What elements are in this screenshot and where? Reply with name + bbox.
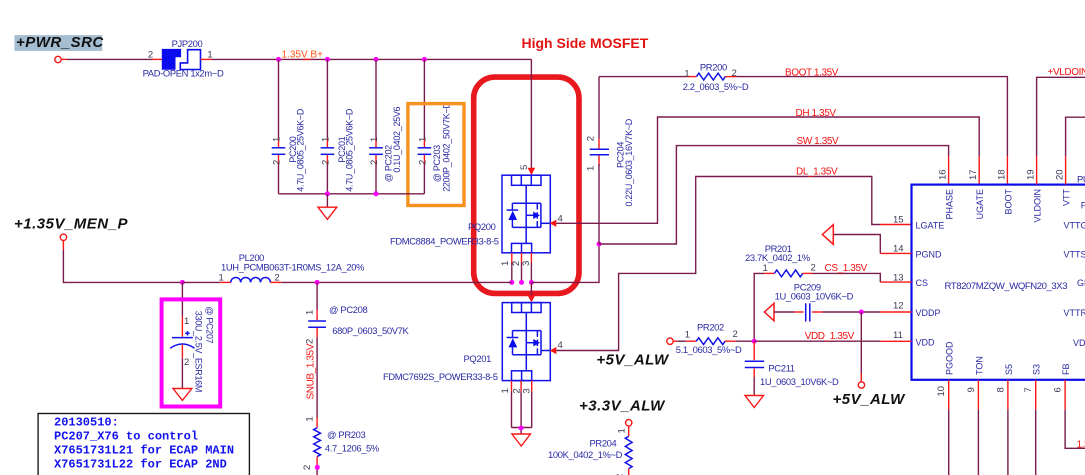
capacitor PC201 (320, 59, 354, 193)
svg-text:2: 2 (272, 160, 283, 165)
pin 20 VTT (1055, 117, 1085, 206)
svg-text:VDD_1.35V: VDD_1.35V (805, 331, 855, 342)
svg-text:S3: S3 (1032, 364, 1042, 375)
transistor PQ200 (390, 165, 563, 266)
svg-text:@ PC207: @ PC207 (205, 306, 215, 343)
svg-text:19: 19 (1026, 169, 1037, 180)
pin 6 FB (1053, 363, 1085, 448)
wire PL200 to SW node (270, 281, 511, 283)
junction dot +5V/VDDP (859, 310, 864, 315)
highlight box around PC203 (orange) (408, 104, 464, 206)
svg-text:2.2_0603_5%~D: 2.2_0603_5%~D (683, 81, 749, 92)
junction dots on 1.35V rail (276, 57, 427, 62)
svg-text:PR202: PR202 (697, 322, 724, 333)
junction dots on cap bottom rail (325, 191, 379, 196)
capacitor PC209 with page arrow (764, 281, 880, 321)
wires PQ201 pins 1,2,3 to ground (512, 381, 532, 434)
svg-text:18: 18 (996, 169, 1007, 180)
svg-text:16: 16 (938, 169, 949, 180)
pin 19 VLDOIN (1026, 77, 1085, 222)
pin 16 PHASE (938, 169, 955, 219)
resistor PR201 (745, 243, 912, 341)
svg-text:PU200: PU200 (1077, 174, 1085, 185)
pin 9 TON (966, 356, 985, 475)
svg-text:VTT: VTT (1062, 188, 1072, 206)
pin 18 BOOT (996, 169, 1013, 214)
note box 20130510 (38, 414, 249, 475)
PQ200 pin4 arrow (550, 220, 557, 227)
pin 15 LGATE (893, 215, 944, 231)
svg-text:VDDP: VDDP (916, 308, 941, 318)
resistor PR203 (302, 416, 379, 475)
svg-text:1: 1 (417, 137, 428, 142)
svg-text:2: 2 (417, 160, 428, 165)
capacitor PC208 (snubber) (305, 282, 410, 417)
wire SW node to PC204 riser (531, 244, 599, 282)
svg-text:CS_1.35V: CS_1.35V (825, 263, 868, 274)
svg-text:1: 1 (685, 329, 690, 340)
node +PWR_SRC (14, 34, 104, 63)
ground (cap bank) (318, 194, 337, 220)
svg-text:RT8207MZQW_WQFN20_3X3: RT8207MZQW_WQFN20_3X3 (945, 281, 1068, 292)
svg-text:2: 2 (302, 465, 313, 470)
resistor PR204 (548, 426, 632, 475)
svg-text:2: 2 (733, 329, 738, 340)
svg-text:14: 14 (893, 244, 904, 255)
svg-text:TON: TON (974, 356, 984, 375)
wire BOOT net (599, 77, 1007, 185)
svg-text:PQ200: PQ200 (468, 221, 496, 232)
wire SW riser to PQ201 drain (528, 282, 536, 302)
resistor PR202 (667, 322, 754, 356)
svg-text:100K_0402_1%~D: 100K_0402_1%~D (548, 449, 623, 460)
resistor PR200 (683, 61, 749, 92)
svg-text:3: 3 (522, 388, 533, 393)
svg-text:+1.35V_MEN_P: +1.35V_MEN_P (14, 215, 128, 232)
svg-text:1: 1 (585, 166, 596, 171)
svg-text:@ PC208: @ PC208 (329, 304, 367, 315)
svg-text:680P_0603_50V7K: 680P_0603_50V7K (332, 325, 409, 336)
node +3.3V_ALW (579, 398, 666, 426)
svg-text:VTTREF: VTTREF (1064, 308, 1085, 318)
svg-text:23.7K_0402_1%: 23.7K_0402_1% (745, 252, 810, 263)
pin 7 S3 (1023, 364, 1042, 475)
svg-text:PR204: PR204 (590, 437, 617, 448)
svg-text:5: 5 (519, 165, 530, 170)
svg-text:X7651731L22 for ECAP 2ND: X7651731L22 for ECAP 2ND (54, 458, 227, 472)
wires PQ200 pins 1,2,3 to SW node (512, 253, 532, 283)
svg-text:PAD-OPEN 1x2m~D: PAD-OPEN 1x2m~D (143, 68, 224, 79)
svg-text:+5V_ALW: +5V_ALW (596, 351, 670, 368)
svg-text:FB: FB (1081, 201, 1085, 211)
pin 17 UGATE (968, 169, 985, 219)
svg-text:2: 2 (305, 339, 316, 344)
pin 11 VDD (880, 330, 935, 347)
svg-text:4.7_1206_5%: 4.7_1206_5% (325, 442, 379, 453)
svg-text:20: 20 (1055, 169, 1066, 180)
svg-text:1: 1 (320, 137, 331, 142)
wire rail to PL200 (182, 281, 230, 283)
svg-text:1: 1 (219, 272, 224, 283)
svg-text:11: 11 (893, 330, 903, 341)
svg-text:GND: GND (1077, 278, 1085, 288)
svg-text:S5: S5 (1004, 364, 1014, 375)
svg-text:1: 1 (272, 137, 283, 142)
svg-text:BOOT 1.35V: BOOT 1.35V (785, 68, 839, 79)
svg-text:FB: FB (1061, 363, 1071, 375)
svg-text:0.22U_0603_16V7K~D: 0.22U_0603_16V7K~D (624, 118, 634, 206)
svg-text:9: 9 (966, 387, 977, 392)
svg-text:+PWR_SRC: +PWR_SRC (16, 34, 104, 51)
svg-text:PR200: PR200 (700, 61, 727, 72)
svg-text:2: 2 (148, 49, 153, 60)
svg-text:15: 15 (893, 215, 904, 226)
svg-text:FDMC7692S_POWER33-8-5: FDMC7692S_POWER33-8-5 (383, 371, 498, 382)
svg-text:@ PC203: @ PC203 (432, 145, 442, 182)
svg-text:CS: CS (916, 278, 929, 288)
svg-text:2: 2 (369, 160, 380, 165)
svg-text:0.1U_0402_25V6: 0.1U_0402_25V6 (392, 106, 402, 172)
svg-text:1: 1 (305, 310, 316, 315)
svg-text:2: 2 (732, 68, 737, 79)
svg-text:3: 3 (521, 261, 532, 266)
svg-text:1UH_PCMB063T-1R0MS_12A_20%: 1UH_PCMB063T-1R0MS_12A_20% (221, 261, 364, 272)
svg-text:VLDOIN: VLDOIN (1033, 189, 1043, 223)
pin 10 PGOOD (936, 341, 955, 475)
svg-text:PC211: PC211 (768, 362, 794, 373)
inductor PL200 (219, 252, 365, 283)
svg-text:PC207_X76 to control: PC207_X76 to control (54, 430, 198, 444)
svg-text:+3.3V_ALW: +3.3V_ALW (579, 398, 666, 415)
wire +5V_ALW riser (858, 312, 864, 388)
capacitor PC207 (electrolytic) (170, 282, 214, 392)
svg-text:PQ201: PQ201 (464, 353, 492, 364)
highlight box around PC207 (magenta) (162, 299, 221, 406)
svg-text:2: 2 (320, 160, 331, 165)
wire DH net (PQ200 gate to pin17) (556, 117, 979, 223)
svg-text:VTTGND: VTTGND (1064, 221, 1085, 231)
svg-text:PGOOD: PGOOD (945, 341, 955, 375)
svg-text:1: 1 (305, 416, 316, 421)
capacitor PC203 (417, 59, 451, 193)
svg-text:8: 8 (995, 387, 1006, 392)
svg-text:1.35V: 1.35V (1077, 439, 1085, 450)
svg-text:1: 1 (617, 428, 628, 433)
svg-text:1: 1 (500, 261, 511, 266)
svg-text:SW 1.35V: SW 1.35V (797, 136, 840, 147)
svg-text:SNUB_1.35V: SNUB_1.35V (305, 343, 316, 399)
junction dot VDD node (752, 339, 757, 344)
svg-text:5.1_0603_5%~D: 5.1_0603_5%~D (676, 344, 742, 355)
wire DL net (PQ201 gate to pin15) (556, 177, 911, 351)
op-amp / controller U: PU200 RT8207MZQW (912, 174, 1085, 380)
svg-text:20130510:: 20130510: (54, 416, 119, 430)
svg-text:2200P_0402_50V7K~D: 2200P_0402_50V7K~D (442, 102, 452, 192)
node +1.35V_MEN_P (14, 215, 128, 240)
svg-text:4.7U_0805_25V6K~D: 4.7U_0805_25V6K~D (296, 108, 306, 192)
svg-text:1: 1 (684, 68, 689, 79)
junction dot PC207 tap (180, 280, 185, 285)
svg-text:FDMC8884_POWER33-8-5: FDMC8884_POWER33-8-5 (390, 235, 499, 246)
wire VDD to pin 11 (754, 340, 880, 342)
svg-text:BOOT: BOOT (1003, 189, 1013, 215)
svg-text:10: 10 (936, 386, 947, 397)
pin 13 CS (893, 273, 928, 289)
svg-text:VDD: VDD (916, 337, 936, 347)
svg-text:12: 12 (893, 301, 904, 312)
wire +1.35V_MEN_P to output rail (63, 241, 182, 283)
svg-text:1: 1 (369, 137, 380, 142)
pin 8 S5 (995, 364, 1014, 475)
svg-text:2: 2 (585, 136, 596, 141)
svg-text:2: 2 (811, 263, 816, 274)
svg-text:PHASE: PHASE (945, 189, 955, 220)
svg-text:1U_0603_10V6K~D: 1U_0603_10V6K~D (760, 376, 839, 387)
svg-text:7: 7 (1023, 387, 1034, 392)
svg-text:+5V_ALW: +5V_ALW (833, 391, 907, 408)
pin 12 VDDP (880, 301, 940, 319)
svg-text:1.35V B+: 1.35V B+ (282, 50, 324, 61)
PQ201 pin4 arrow (550, 347, 557, 354)
svg-text:1: 1 (763, 263, 768, 274)
junction dot SNUB tap (315, 280, 320, 285)
ground (PC211) (745, 396, 764, 408)
net arrow (pin 14 PGND to page connector) (822, 225, 880, 254)
transistor PQ201 (383, 303, 563, 394)
junction dot PC204 bottom (597, 242, 602, 247)
wire cap bank bottom rail (279, 193, 425, 195)
capacitor PC202 (369, 59, 402, 193)
junction dots SW node (509, 280, 534, 285)
svg-text:4.7U_0805_25V6K~D: 4.7U_0805_25V6K~D (344, 108, 354, 192)
svg-text:6: 6 (1053, 387, 1064, 392)
svg-text:DH 1.35V: DH 1.35V (796, 108, 837, 119)
svg-text:1U_0603_10V6K~D: 1U_0603_10V6K~D (775, 291, 854, 302)
svg-text:17: 17 (968, 169, 979, 180)
svg-text:4: 4 (558, 340, 563, 351)
svg-text:PGND: PGND (916, 249, 943, 259)
jumper PJP200 (143, 38, 224, 79)
junction dot PQ201 source (519, 426, 524, 431)
svg-text:1: 1 (500, 388, 511, 393)
svg-text:2: 2 (184, 357, 189, 368)
capacitor PC200 (272, 59, 306, 193)
svg-text:1: 1 (184, 316, 189, 327)
highlight rounded box (red) around PQ200 (474, 77, 579, 293)
node 1.35V B+ rail (279, 50, 532, 61)
wire 1.35V rail to PQ200 pin5 (528, 59, 536, 175)
svg-text:X7651731L21 for ECAP MAIN: X7651731L21 for ECAP MAIN (54, 444, 234, 458)
wire PJP200 pin1 to 1.35V rail (201, 58, 279, 60)
svg-text:High Side MOSFET: High Side MOSFET (522, 35, 649, 51)
svg-text:VTTSNS: VTTSNS (1064, 249, 1085, 259)
right side pin names (clipped at edge) (1064, 201, 1085, 348)
ground (PQ201) (512, 434, 531, 446)
svg-text:@ PR203: @ PR203 (327, 429, 365, 440)
wire SW net (SW node to pin16) (599, 146, 949, 244)
svg-text:LGATE: LGATE (916, 221, 945, 231)
svg-text:DL_1.35V: DL_1.35V (796, 166, 838, 177)
svg-text:330U_2.5V_ESR16M: 330U_2.5V_ESR16M (194, 311, 204, 392)
capacitor PC204 (585, 77, 634, 244)
pin 14 PGND (880, 244, 942, 260)
svg-text:VDDQ: VDDQ (1073, 338, 1085, 348)
svg-text:PJP200: PJP200 (172, 38, 203, 49)
svg-text:+VLDOIN: +VLDOIN (1048, 67, 1085, 78)
wire +PWR_SRC to PJP200 pin2 (61, 58, 161, 60)
ground (PC207) (173, 389, 192, 401)
svg-text:UGATE: UGATE (975, 189, 985, 219)
capacitor PC211 (745, 342, 839, 395)
